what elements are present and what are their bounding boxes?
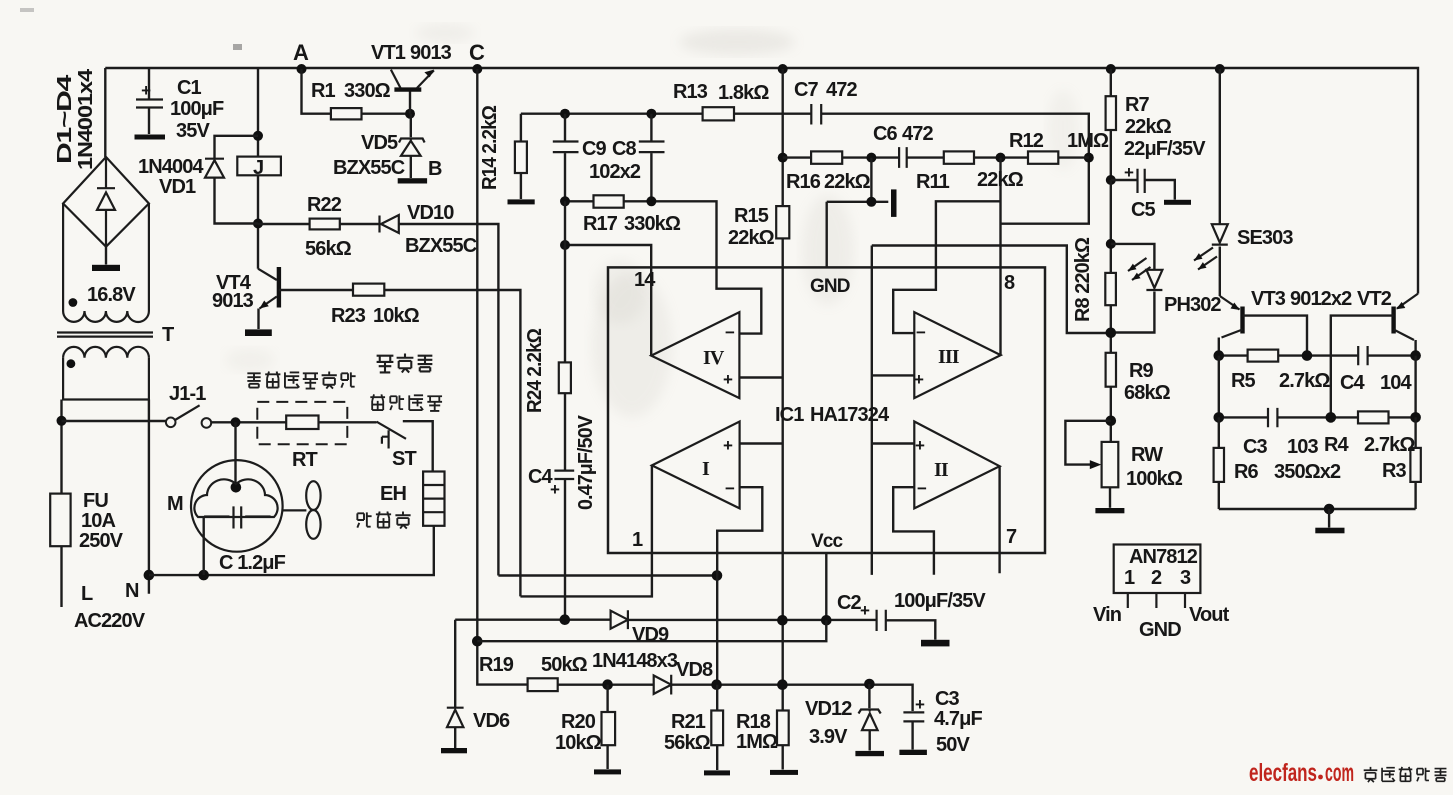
ground below R18: [770, 770, 798, 775]
capacitor C5: [1106, 163, 1175, 200]
svg-text:+: +: [914, 370, 924, 389]
svg-text:R16: R16: [786, 171, 821, 193]
svg-text:RW: RW: [1131, 444, 1163, 466]
svg-text:R5: R5: [1231, 370, 1256, 392]
svg-text:104: 104: [1380, 372, 1412, 394]
wire R22 feed: [258, 223, 310, 225]
motor M: [191, 460, 283, 575]
svg-text:C4: C4: [528, 466, 554, 488]
wire multivibrator top line: [1219, 354, 1416, 356]
resistor R19: [528, 678, 558, 691]
resistor R23: [353, 284, 384, 296]
svg-text:R6: R6: [1234, 461, 1259, 483]
svg-text:0.47μF/50V: 0.47μF/50V: [575, 414, 597, 510]
op-amp III: [893, 267, 1001, 398]
svg-text:R8 220kΩ: R8 220kΩ: [1072, 237, 1094, 322]
svg-text:I: I: [702, 458, 710, 480]
svg-text:R9: R9: [1129, 360, 1154, 382]
svg-text:HA17324: HA17324: [810, 404, 890, 426]
svg-text:1.8kΩ: 1.8kΩ: [718, 82, 769, 104]
resistor R4: [1358, 411, 1389, 423]
resistor R3: [1410, 417, 1420, 509]
svg-text:VD10: VD10: [407, 202, 454, 224]
resistor R13: [703, 107, 734, 120]
svg-text:ST: ST: [392, 448, 416, 470]
wire III minus link: [936, 201, 1001, 267]
svg-text:C7: C7: [794, 79, 819, 101]
wire RT to ST: [319, 421, 377, 423]
svg-text:1MΩ: 1MΩ: [736, 731, 778, 753]
photodiode PH302: [1111, 244, 1163, 333]
svg-text:2.7kΩ: 2.7kΩ: [1364, 434, 1415, 456]
svg-text:−: −: [916, 323, 926, 342]
heater EH: [423, 472, 444, 526]
ground below VT4: [245, 329, 272, 336]
svg-text:1MΩ: 1MΩ: [1067, 130, 1109, 152]
transistor VT2: [1331, 294, 1418, 418]
wire VD6 / VD9 / C2 line: [455, 620, 935, 640]
wire node A down to R1 line: [302, 69, 331, 114]
svg-text:C4: C4: [1340, 372, 1366, 394]
svg-text:68kΩ: 68kΩ: [1124, 382, 1171, 404]
resistor R16: [811, 151, 842, 163]
capacitor C7: [811, 104, 821, 125]
svg-text:9012x2: 9012x2: [1290, 288, 1352, 310]
label op-amp signs: [723, 323, 927, 498]
svg-text:com: com: [1325, 759, 1354, 787]
svg-text:9013: 9013: [212, 290, 254, 312]
wire rail left drop to bridge: [104, 68, 106, 157]
relay coil J: [237, 157, 281, 176]
ground below VD6: [441, 748, 467, 753]
wire III output vertical: [999, 158, 1001, 356]
resistor R22: [310, 219, 340, 230]
svg-text:10kΩ: 10kΩ: [555, 732, 602, 754]
svg-text:C5: C5: [1131, 199, 1156, 221]
potentiometer RW: [1065, 421, 1118, 508]
bridge rectifier D1-D4: [63, 157, 149, 247]
svg-text:Vcc: Vcc: [811, 531, 843, 552]
fan blades: [283, 481, 321, 539]
motor M feed wire: [234, 422, 236, 487]
resistor R6: [1214, 417, 1224, 509]
fuse FU: [50, 494, 70, 547]
label CJK over-temperature protection resistor: [247, 371, 355, 388]
resistor RT: [286, 416, 318, 430]
wire R15 vertical rail: [782, 69, 784, 770]
svg-text:35V: 35V: [176, 120, 210, 142]
svg-text:R4: R4: [1324, 434, 1350, 456]
wire R1 to VT1 base: [362, 112, 411, 114]
resistor R1: [331, 108, 362, 119]
svg-text:100kΩ: 100kΩ: [1126, 468, 1183, 490]
svg-text:VD5: VD5: [361, 132, 398, 154]
capacitor C8: [639, 114, 665, 202]
svg-text:VT3: VT3: [1251, 288, 1286, 310]
svg-text:VD12: VD12: [805, 698, 852, 720]
svg-text:1N4004: 1N4004: [138, 156, 204, 178]
wire N lead: [148, 400, 150, 594]
transistor VT3: [1219, 296, 1307, 356]
svg-text:T: T: [162, 324, 174, 346]
ground below C3: [899, 750, 927, 755]
svg-text:VD8: VD8: [676, 659, 713, 681]
wire R22 to VD10: [340, 223, 380, 225]
svg-text:R23: R23: [331, 305, 366, 327]
light arrows from SE303: [1194, 248, 1217, 270]
svg-text:C3: C3: [935, 688, 960, 710]
svg-text:R3: R3: [1382, 460, 1407, 482]
svg-text:BZX55C: BZX55C: [405, 235, 477, 257]
svg-text:+: +: [723, 370, 733, 389]
ground below C2: [921, 640, 950, 647]
regulator AN7812 block: [1114, 545, 1201, 609]
resistor R20: [602, 685, 616, 769]
node A: [297, 64, 307, 74]
wire node C long vertical to R19: [477, 69, 527, 685]
wire Vcc bypass link y=641: [477, 620, 826, 641]
svg-text:J1-1: J1-1: [169, 383, 206, 405]
wire switch to RT: [211, 421, 286, 423]
diode VD6: [447, 620, 464, 748]
svg-text:472: 472: [826, 79, 857, 101]
svg-text:4.7μF: 4.7μF: [934, 708, 982, 730]
svg-text:R13: R13: [673, 81, 708, 103]
svg-text:AN7812: AN7812: [1129, 546, 1198, 568]
svg-text:GND: GND: [810, 276, 850, 297]
svg-text:3: 3: [1180, 567, 1191, 589]
svg-text:III: III: [938, 346, 960, 368]
svg-text:SE303: SE303: [1237, 227, 1293, 249]
zener VD5: [399, 114, 425, 178]
svg-text:2: 2: [1151, 567, 1162, 589]
wire x=565 node vertical: [564, 201, 566, 619]
svg-text:IC1: IC1: [775, 404, 804, 426]
svg-text:R19: R19: [479, 654, 514, 676]
svg-text:−: −: [917, 479, 927, 498]
ground below C1: [135, 135, 166, 140]
resistor R7: [1106, 69, 1116, 180]
svg-text:−: −: [725, 323, 735, 342]
capacitor C1: [136, 68, 163, 134]
svg-text:+: +: [723, 436, 733, 455]
resistor R5: [1248, 350, 1279, 362]
ground below R20: [594, 769, 621, 774]
node R7 rail tap: [1106, 64, 1116, 74]
transformer T secondary: [63, 204, 149, 323]
svg-text:R21: R21: [671, 711, 706, 733]
diode VD9: [611, 610, 628, 629]
svg-text:330kΩ: 330kΩ: [624, 213, 681, 235]
wire top filter line y=113.7: [521, 114, 1089, 224]
svg-text:II: II: [934, 459, 949, 481]
svg-text:1N4001x4: 1N4001x4: [75, 68, 97, 170]
svg-text:+: +: [1124, 163, 1134, 182]
svg-text:16.8V: 16.8V: [87, 284, 136, 306]
wire IV output link: [565, 245, 651, 356]
svg-text:+: +: [860, 601, 870, 620]
svg-text:+: +: [915, 695, 925, 714]
svg-text:50kΩ: 50kΩ: [541, 654, 588, 676]
ground bar sideways (GND net): [891, 189, 897, 217]
svg-text:R18: R18: [736, 711, 771, 733]
svg-text:VD9: VD9: [632, 624, 669, 646]
capacitor C3 103: [1268, 408, 1277, 427]
svg-text:14: 14: [634, 269, 656, 291]
svg-text:R7: R7: [1125, 94, 1150, 116]
svg-text:22kΩ: 22kΩ: [824, 171, 871, 193]
IC1 HA17324 package box: [608, 267, 1045, 553]
svg-text:B: B: [428, 158, 442, 180]
svg-text:BZX55C: BZX55C: [333, 157, 405, 179]
ground below R21: [704, 770, 730, 775]
svg-text:C6: C6: [873, 123, 898, 145]
svg-text:Vout: Vout: [1189, 604, 1230, 626]
ground below R14: [508, 199, 535, 204]
svg-text:RT: RT: [292, 449, 318, 471]
op-amp IV: [651, 267, 783, 398]
op-amp II: [893, 422, 999, 575]
resistor R18: [777, 711, 789, 746]
svg-text:22μF/35V: 22μF/35V: [1124, 138, 1206, 160]
svg-text:elecfans: elecfans: [1249, 759, 1317, 787]
wire top supply rail: [105, 68, 1418, 294]
svg-text:10kΩ: 10kΩ: [373, 305, 420, 327]
svg-text:−: −: [725, 479, 735, 498]
resistor R15: [776, 206, 789, 238]
wire side drops: [1219, 356, 1416, 418]
transistor VT4: [258, 267, 279, 329]
LED SE303: [1212, 69, 1228, 296]
light arrows into PH302: [1128, 258, 1151, 280]
svg-text:2.7kΩ: 2.7kΩ: [1279, 370, 1330, 392]
svg-text:R14 2.2kΩ: R14 2.2kΩ: [479, 105, 501, 190]
wire EH to AC bottom line: [149, 526, 434, 575]
svg-text:7: 7: [1006, 526, 1017, 548]
svg-text:C3: C3: [1243, 436, 1268, 458]
svg-text:C 1.2μF: C 1.2μF: [219, 552, 286, 574]
svg-text:22kΩ: 22kΩ: [977, 169, 1024, 191]
svg-text:100μF: 100μF: [170, 98, 224, 120]
svg-text:R22: R22: [307, 194, 342, 216]
label CJK thermostat switch: [370, 394, 442, 411]
zener VD12: [859, 684, 881, 751]
ground below multivibrator: [1328, 509, 1330, 528]
svg-text:Vin: Vin: [1093, 604, 1121, 626]
svg-text:22kΩ: 22kΩ: [728, 227, 775, 249]
svg-text:R20: R20: [561, 711, 596, 733]
svg-text:56kΩ: 56kΩ: [664, 732, 711, 754]
svg-text:VT2: VT2: [1357, 288, 1392, 310]
svg-text:VT1: VT1: [371, 42, 406, 64]
svg-text:C2: C2: [837, 592, 862, 614]
diode VD8: [654, 675, 672, 695]
svg-text:L: L: [81, 583, 93, 605]
wire R23 to pin1 drop: [384, 290, 520, 596]
capacitor C3 4.7uF: [903, 695, 925, 750]
wire R7-R8 junction: [1110, 180, 1112, 273]
wire L lead with fuse: [60, 400, 62, 608]
capacitor C2: [860, 601, 886, 631]
wire VD8 line to C3: [671, 685, 912, 711]
transformer core: [57, 333, 153, 337]
op-amp I: [520, 422, 782, 685]
svg-text:50V: 50V: [936, 734, 970, 756]
resistor R8: [1105, 273, 1116, 353]
svg-text:FU: FU: [83, 490, 108, 512]
logo CJK elecfans brand: [1364, 767, 1447, 782]
wire R19 to VD8: [558, 684, 654, 686]
label CJK heating wire: [357, 511, 410, 528]
ground below C5: [1164, 200, 1191, 205]
svg-text:GND: GND: [1139, 619, 1181, 641]
svg-text:8: 8: [1004, 272, 1015, 294]
svg-text:102x2: 102x2: [589, 161, 641, 183]
wire multivibrator bottom line: [1219, 508, 1416, 510]
svg-text:EH: EH: [380, 483, 406, 505]
resistor R14: [515, 114, 527, 199]
wire R17 line to IC pin (IV minus): [565, 201, 717, 267]
svg-text:PH302: PH302: [1164, 294, 1221, 316]
svg-text:350Ωx2: 350Ωx2: [1274, 461, 1341, 483]
svg-text:472: 472: [902, 123, 933, 145]
svg-text:IV: IV: [703, 347, 725, 369]
svg-text:R15: R15: [734, 205, 769, 227]
svg-text:C8: C8: [612, 138, 637, 160]
wire multivibrator lower line: [1219, 416, 1416, 418]
label CJK bimetal: [377, 354, 433, 373]
capacitor C6: [899, 147, 907, 168]
svg-text:C: C: [469, 40, 485, 65]
svg-text:103: 103: [1287, 436, 1318, 458]
wire Vcc pin: [825, 553, 827, 620]
svg-text:250V: 250V: [79, 530, 124, 552]
resistor R17: [594, 195, 624, 207]
svg-text:10A: 10A: [81, 510, 115, 532]
svg-text:R12: R12: [1009, 130, 1044, 152]
resistor R9: [1106, 353, 1117, 442]
ground below VD5 (node B): [398, 178, 427, 183]
svg-text:VD1: VD1: [159, 176, 196, 198]
svg-text:330Ω: 330Ω: [344, 80, 391, 102]
svg-text:+: +: [915, 436, 925, 455]
svg-text:VD6: VD6: [473, 710, 510, 732]
node C: [472, 64, 482, 74]
svg-text:3.9V: 3.9V: [809, 726, 848, 748]
svg-text:N: N: [125, 580, 139, 602]
resistor R12: [1028, 151, 1058, 163]
transistor VT1: [391, 70, 434, 114]
switch J1-1: [62, 405, 212, 427]
wire VT4 base to R23: [279, 289, 353, 291]
svg-text:22kΩ: 22kΩ: [1125, 116, 1172, 138]
thermistor RT dashed box: [257, 402, 347, 444]
svg-text:56kΩ: 56kΩ: [305, 238, 352, 260]
svg-text:D1~D4: D1~D4: [54, 73, 76, 164]
svg-text:R11: R11: [916, 171, 950, 193]
diode VD1: [205, 136, 258, 224]
capacitor C9: [553, 114, 579, 202]
transformer T primary: [63, 347, 149, 400]
svg-text:C1: C1: [177, 77, 202, 99]
wire R16 line: [783, 156, 1089, 158]
resistor R11: [944, 151, 974, 163]
svg-text:M: M: [167, 493, 183, 515]
svg-text:1: 1: [1124, 567, 1135, 589]
wire GND net elbow: [827, 158, 889, 268]
svg-text:AC220V: AC220V: [74, 610, 146, 632]
svg-text:A: A: [293, 40, 309, 65]
svg-text:R1: R1: [311, 80, 336, 102]
svg-text:J: J: [253, 157, 263, 179]
capacitor C4 104: [1358, 346, 1367, 365]
ground below RW: [1095, 508, 1124, 513]
svg-text:R24 2.2kΩ: R24 2.2kΩ: [524, 328, 546, 413]
ground below bridge: [105, 247, 107, 265]
svg-text:1N4148x3: 1N4148x3: [592, 650, 678, 672]
node SE303 rail tap: [1215, 64, 1225, 74]
thermal switch ST: [377, 421, 433, 471]
svg-text:R17: R17: [583, 213, 618, 235]
svg-text:100μF/35V: 100μF/35V: [894, 590, 986, 612]
wire VD10-node line to IC pin (y=575): [498, 574, 717, 576]
wire III+/II+ feed: [872, 246, 1110, 334]
svg-text:9013: 9013: [410, 42, 452, 64]
wire J branch from rail: [257, 68, 259, 269]
diode VD10: [380, 215, 399, 233]
resistor R24: [559, 362, 571, 393]
resistor R21: [711, 685, 723, 770]
svg-text:1: 1: [632, 529, 643, 551]
svg-text:C9: C9: [582, 138, 607, 160]
capacitor C4 0.47uF: [550, 471, 574, 499]
wire VD10 to drop at x=498: [399, 224, 499, 576]
ground below VD12: [855, 751, 884, 756]
svg-text:+: +: [141, 81, 151, 100]
